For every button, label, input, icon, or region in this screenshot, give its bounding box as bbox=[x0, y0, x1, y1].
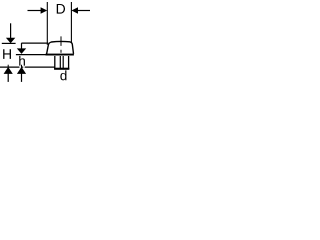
label d bbox=[60, 70, 66, 80]
dimension h arrow up (bottom) bbox=[17, 67, 26, 74]
dimension h tail top bbox=[21, 43, 23, 49]
halo break in baseline under h left stem bbox=[19, 66, 21, 68]
dimension h tail bottom bbox=[21, 74, 23, 82]
cap bottom edge (thick) bbox=[46, 54, 74, 56]
extension line right of D bbox=[70, 2, 72, 43]
dimension H arrow down bbox=[6, 38, 15, 44]
stem outer right edge bbox=[68, 56, 70, 69]
h reference line (cap bottom level) bbox=[16, 54, 46, 56]
dimension D leader line right bbox=[78, 10, 90, 12]
stem inner line right bbox=[62, 56, 64, 68]
centerline dash long bbox=[60, 36, 62, 46]
centerline dot bbox=[60, 50, 62, 53]
cap outline (dome head) bbox=[47, 41, 74, 54]
dimension D arrow right bbox=[71, 7, 78, 13]
extension line left of D bbox=[46, 2, 48, 45]
dimension H tail bottom bbox=[7, 74, 9, 82]
baseline (bottom reference line) bbox=[0, 66, 55, 68]
dimension D arrow left bbox=[41, 7, 48, 13]
label D bbox=[57, 4, 65, 14]
dimension H arrow up (bottom) bbox=[4, 67, 13, 74]
stem inner line left bbox=[59, 56, 61, 68]
dimension h line overshoot above baseline bbox=[21, 65, 23, 68]
stem outer left edge bbox=[54, 56, 56, 69]
label H bbox=[3, 49, 11, 59]
dimension D leader line left bbox=[28, 10, 42, 12]
dimension H tail top bbox=[10, 23, 12, 38]
stem bottom edge (thick) bbox=[54, 68, 69, 70]
label h bbox=[19, 56, 25, 66]
dimension h arrow down bbox=[17, 48, 26, 54]
dimension H line overshoot above baseline bbox=[7, 65, 9, 68]
H reference line segment to cap bbox=[21, 42, 48, 44]
halo break in baseline under h right stem bbox=[23, 66, 25, 68]
H reference line segment under H arrow bbox=[2, 42, 16, 44]
